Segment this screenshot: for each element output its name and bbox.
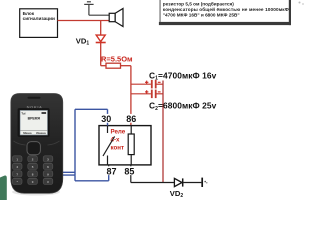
svg-text:86: 86: [126, 114, 136, 124]
svg-text:C1=4700мкФ 16v: C1=4700мкФ 16v: [149, 70, 217, 81]
svg-text:R=5.5Ом: R=5.5Ом: [101, 55, 133, 64]
svg-text:87: 87: [106, 166, 116, 176]
svg-text:"4700 МКФ 16В" и 6800 МКФ 25В": "4700 МКФ 16В" и 6800 МКФ 25В": [163, 13, 240, 18]
svg-text:30: 30: [101, 114, 111, 124]
svg-text:ВРЕМЯ: ВРЕМЯ: [28, 116, 41, 120]
svg-text:VD2: VD2: [170, 189, 184, 199]
svg-text:конденсаторы общей ёмкостью не: конденсаторы общей ёмкостью не менее 100…: [163, 6, 289, 12]
svg-text:резистор 5,5 ом (подбирается): резистор 5,5 ом (подбирается): [163, 0, 234, 6]
svg-text:сигнализации: сигнализации: [23, 16, 55, 21]
svg-text:85: 85: [124, 166, 134, 176]
svg-text:C2=6800мкФ 25v: C2=6800мкФ 25v: [149, 101, 217, 112]
svg-text:Меню: Меню: [23, 131, 32, 135]
svg-text:конт: конт: [111, 144, 125, 151]
svg-text:VD1: VD1: [76, 36, 90, 46]
svg-text:Реле: Реле: [111, 128, 126, 135]
svg-text:Tul: Tul: [21, 112, 25, 116]
svg-text:Имена: Имена: [36, 131, 46, 135]
